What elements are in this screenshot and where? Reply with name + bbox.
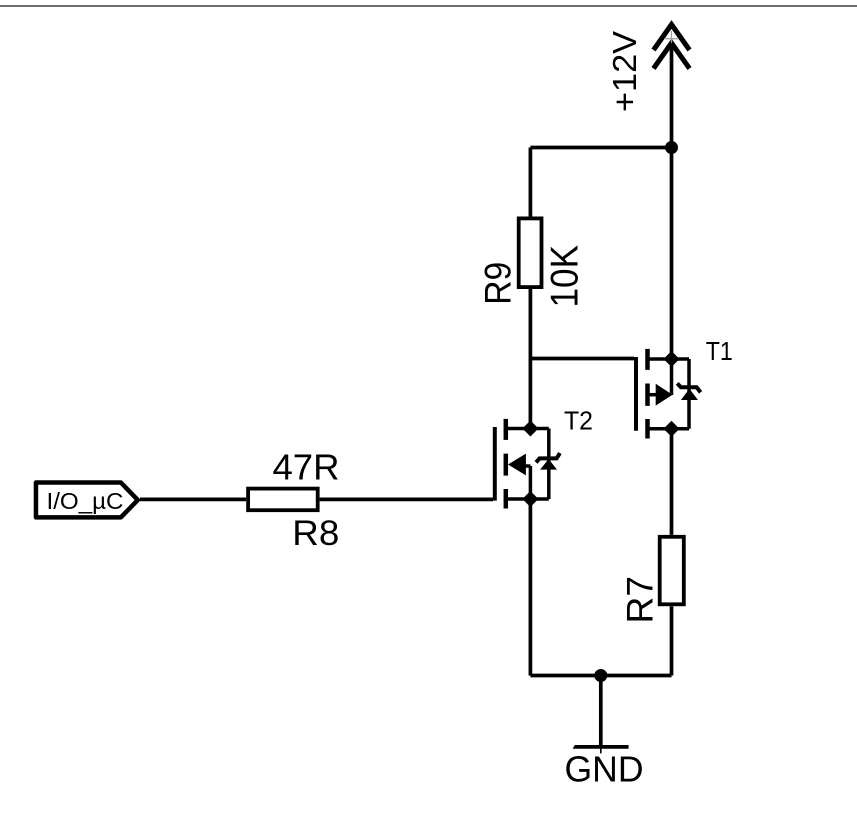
svg-text:47R: 47R (273, 447, 340, 488)
svg-text:T2: T2 (564, 407, 593, 435)
svg-text:+12V: +12V (607, 30, 644, 112)
svg-text:T1: T1 (706, 336, 733, 366)
svg-text:I/O_µC: I/O_µC (47, 488, 124, 514)
svg-text:R9: R9 (476, 262, 518, 305)
svg-text:GND: GND (565, 749, 644, 790)
svg-text:R7: R7 (619, 576, 661, 624)
svg-text:10K: 10K (543, 245, 586, 308)
svg-text:R8: R8 (292, 514, 339, 553)
